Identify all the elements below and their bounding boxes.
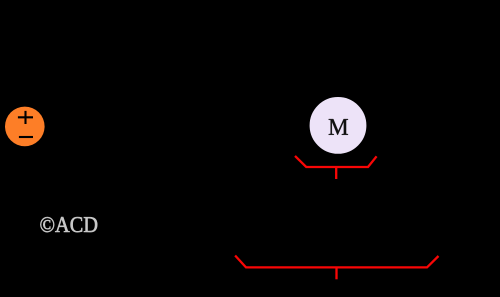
brace lower (full branch span) [235,256,438,280]
battery B1 (DC source) [5,107,45,147]
wire top from battery positive terminal up and right to motor [25,22,338,107]
wire right from top down into motor terminal [338,22,460,125]
wire bottom from motor left terminal down and left to battery negative terminal [25,125,308,250]
watermark ©ACD [40,217,97,232]
brace upper (motor terminals span) [295,156,377,179]
motor M1 [309,96,368,155]
